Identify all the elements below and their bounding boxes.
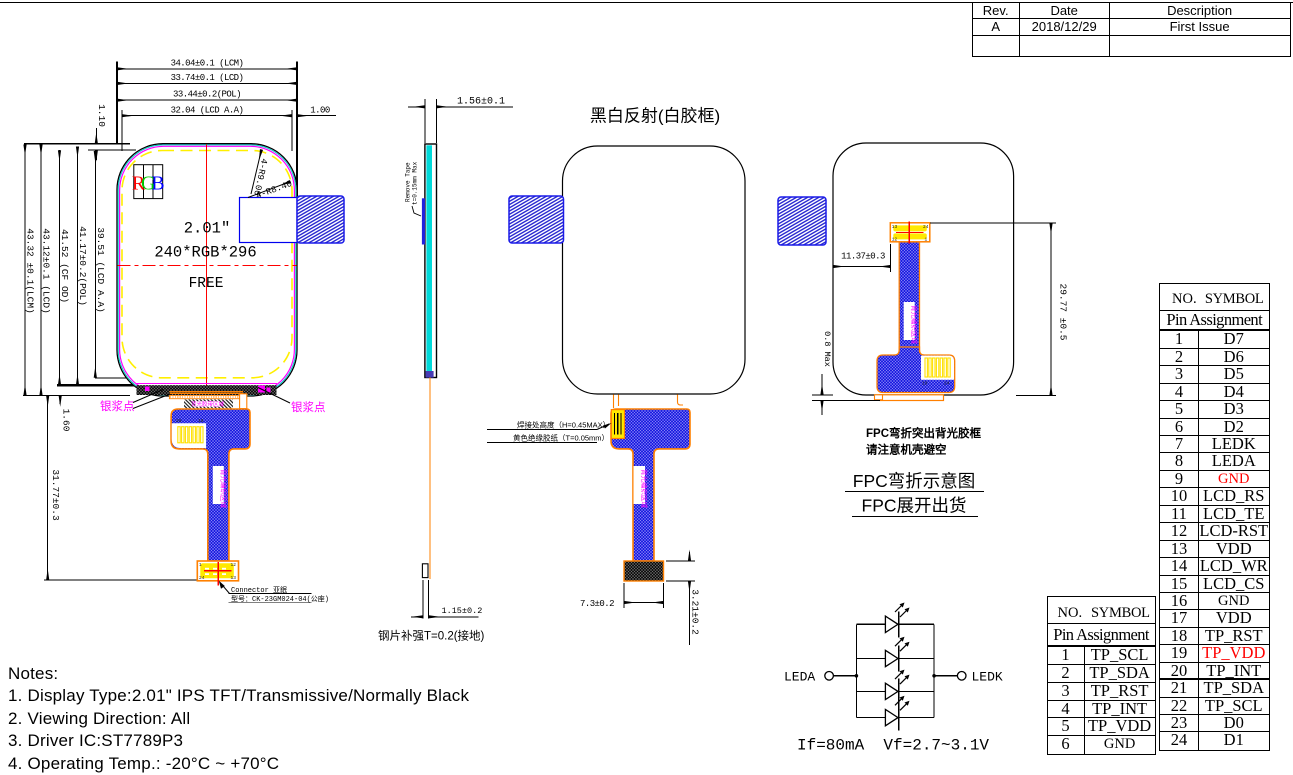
dimension 0.8 Max extension lines <box>812 394 833 396</box>
middle view FPC stem label <box>634 466 646 504</box>
dimension 43.32 LCM vertical line <box>24 145 26 396</box>
svg-text:LEDK: LEDK <box>972 669 1003 684</box>
svg-text:24: 24 <box>199 575 205 581</box>
svg-text:13: 13 <box>892 224 898 230</box>
dimension 1.10 lower line <box>95 150 97 160</box>
dimension 1.15 extension lines <box>422 580 424 618</box>
bend view FPC foot <box>880 395 944 401</box>
dimension 33.44±0.2 (POL) line <box>117 99 297 101</box>
middle view bottom connector hatched <box>624 561 664 581</box>
svg-text:39.51 (LCD A.A): 39.51 (LCD A.A) <box>95 227 106 313</box>
radius callout 4-R8.40 arrow <box>248 182 291 198</box>
dimension 1.60 line <box>59 395 61 404</box>
side view dimension 1.56 arrows <box>408 106 425 108</box>
svg-text:12: 12 <box>892 237 898 243</box>
silver paste leader left <box>133 390 163 403</box>
bend view FPC wide bottom <box>877 347 955 393</box>
left extension line at CF top <box>88 149 136 151</box>
svg-text:1: 1 <box>925 237 928 243</box>
svg-text:13: 13 <box>231 575 237 581</box>
side view dimension 1.56 extension lines <box>424 99 426 143</box>
middle view outline <box>563 146 746 394</box>
bend view connector <box>890 223 930 242</box>
FPC gold fingers front view <box>178 427 203 443</box>
svg-text:FPC弯折示意图: FPC弯折示意图 <box>853 471 976 491</box>
wire anode rail <box>855 624 857 717</box>
dimension 39.51 A.A vertical line <box>94 151 96 378</box>
node LEDA terminal <box>825 672 834 681</box>
dimension 29.77 extension bottom <box>1016 394 1056 396</box>
pin assignment table 24-pin <box>1159 283 1270 751</box>
dimension 32.04 (LCD A.A) line <box>122 115 292 117</box>
svg-text:1: 1 <box>199 562 202 568</box>
svg-text:33.44±0.2(POL): 33.44±0.2(POL) <box>173 90 241 100</box>
wire LEDA to anode rail <box>833 675 856 677</box>
bend view outline <box>833 143 1014 395</box>
svg-text:t=0.15mm Max: t=0.15mm Max <box>412 161 419 205</box>
tape window blue rectangle <box>240 198 298 243</box>
front view: top dimension extension line right (LCM) <box>296 62 298 197</box>
svg-text:FPC展开出货: FPC展开出货 <box>862 496 967 516</box>
silver paste leader right <box>258 388 290 404</box>
radius callout 4-R9.00 arrow <box>251 150 262 195</box>
svg-text:Remove Tape: Remove Tape <box>405 162 412 202</box>
svg-text:7.3±0.2: 7.3±0.2 <box>580 599 614 609</box>
dimension 29.77 line <box>1050 223 1052 395</box>
svg-text:41.52 (CF OD): 41.52 (CF OD) <box>59 229 70 303</box>
left extension line at POL bottom <box>57 384 137 386</box>
side view glass bar <box>425 144 437 378</box>
dimension 7.3 extension lines <box>623 583 625 608</box>
svg-text:1.60: 1.60 <box>61 409 72 432</box>
side view remove tape strip <box>422 198 425 244</box>
LED D3 <box>856 670 934 705</box>
dimension 1.10 upper line <box>95 128 97 144</box>
left extension line at module top <box>24 143 130 145</box>
node LEDK terminal <box>957 672 966 681</box>
front view: top dimension extension line left (LCM) <box>116 62 118 144</box>
svg-text:1.56±0.1: 1.56±0.1 <box>457 97 505 108</box>
FPC zigzag band <box>169 395 243 398</box>
FPC bonding orange lines <box>169 391 243 393</box>
middle view FPC body <box>611 409 690 561</box>
wire cathode rail to LEDK <box>934 675 957 677</box>
remove tape leader <box>412 206 421 216</box>
bend view finger window <box>921 356 954 380</box>
front view: extension line left (LCD A.A) <box>121 110 123 151</box>
bend view foot tab <box>875 395 883 400</box>
svg-text:银浆点: 银浆点 <box>100 399 135 413</box>
left extension line at A.A bottom <box>95 377 128 379</box>
svg-text:背光编织区域: 背光编织区域 <box>220 469 229 509</box>
LED D2 <box>856 637 934 672</box>
svg-text:黑白反射(白胶框): 黑白反射(白胶框) <box>590 107 720 126</box>
bend view connector crosshair <box>896 231 924 233</box>
svg-text:背光编织区域: 背光编织区域 <box>910 305 919 345</box>
bend view FPC stem <box>899 242 919 355</box>
dimension 29.77 extension top <box>930 222 1056 224</box>
svg-text:请注意机壳避空: 请注意机壳避空 <box>866 443 947 457</box>
svg-text:24: 24 <box>944 381 950 387</box>
dimension 43.12 LCD vertical line <box>40 145 42 396</box>
svg-text:0.8 Max: 0.8 Max <box>822 331 832 367</box>
front view POL bottom magenta line <box>137 383 278 385</box>
svg-text:32.04 (LCD A.A): 32.04 (LCD A.A) <box>171 105 244 115</box>
LED D4 <box>856 696 934 731</box>
svg-text:43.32 ±0.1(LCM): 43.32 ±0.1(LCM) <box>25 228 36 314</box>
front view vertical center line red <box>206 144 208 395</box>
front view horizontal center line red dash-dot <box>118 264 297 266</box>
dimension 31.77 vertical line <box>47 395 49 580</box>
sheet top border line <box>0 2 1293 4</box>
svg-text:19: 19 <box>922 381 928 387</box>
svg-text:29.77 ±0.5: 29.77 ±0.5 <box>1058 283 1069 340</box>
connector leader arrow <box>220 583 230 594</box>
svg-text:33.74±0.1 (LCD): 33.74±0.1 (LCD) <box>171 73 244 83</box>
side view stiffener <box>422 564 428 578</box>
dimension 34.04±0.1 (LCM) line <box>117 68 297 70</box>
dimension 3.21 arrows <box>689 552 691 561</box>
connector red crosshair front view <box>204 570 232 572</box>
silver paste dot right small <box>267 388 271 393</box>
silver paste dot left <box>145 387 150 392</box>
backlight tape hatch block <box>184 399 233 408</box>
dimension 1.00 line <box>297 115 336 117</box>
FPC body front view <box>171 409 250 561</box>
svg-text:240*RGB*296: 240*RGB*296 <box>154 244 256 262</box>
svg-text:1.15±0.2: 1.15±0.2 <box>442 606 483 616</box>
svg-text:焊接处高度（H=0.45MAX）: 焊接处高度（H=0.45MAX） <box>517 420 610 430</box>
front view active area yellow dashed outline <box>122 151 292 378</box>
svg-text:银浆点: 银浆点 <box>291 400 326 414</box>
svg-text:25: 25 <box>176 418 182 424</box>
svg-text:If=80mA Vf=2.7~3.1V: If=80mA Vf=2.7~3.1V <box>797 737 989 755</box>
bend view tape hatched rectangle <box>778 197 826 245</box>
dimension 0.8 Max arrows <box>821 374 823 395</box>
svg-text:LEDA: LEDA <box>784 669 815 684</box>
svg-text:3.21±0.2: 3.21±0.2 <box>690 589 701 635</box>
svg-text:B: B <box>151 173 164 195</box>
FPC stem label front view <box>213 466 224 504</box>
pin assignment table 6-pin <box>1047 596 1156 755</box>
svg-text:FREE: FREE <box>189 276 224 292</box>
svg-text:12: 12 <box>231 562 237 568</box>
dimension 41.17 POL vertical line <box>77 147 79 386</box>
svg-text:41.17±0.2(POL): 41.17±0.2(POL) <box>77 226 88 306</box>
wire cathode rail <box>933 624 935 717</box>
LED D1 <box>856 603 934 638</box>
middle view solder detail yellow box <box>611 410 624 439</box>
svg-text:1.00: 1.00 <box>310 105 330 115</box>
svg-text:背光胶带区域: 背光胶带区域 <box>191 400 225 408</box>
side view cyan polarizer layer <box>426 145 432 376</box>
dimension 41.52 CF vertical line <box>59 150 61 385</box>
revision table <box>972 3 1291 58</box>
dimension 11.37 extension line <box>889 244 891 272</box>
front view IC area hatch band <box>137 385 277 395</box>
bend view gold fingers <box>925 358 950 377</box>
svg-text:43.12±0.1 (LCD): 43.12±0.1 (LCD) <box>41 228 52 314</box>
front view: extension line right (LCD A.A) <box>291 110 293 151</box>
extension line at connector bottom <box>44 579 198 581</box>
notes block <box>8 663 469 775</box>
dimension 3.21 extension lines <box>666 560 695 562</box>
dimension 7.3 line <box>624 602 664 604</box>
svg-text:24: 24 <box>923 224 929 230</box>
orange U detail right of hatch block <box>240 394 247 409</box>
RGB pixel box <box>132 165 165 199</box>
dimension 33.74±0.1 (LCD) line <box>117 82 297 84</box>
backlight tape label pill <box>195 401 220 407</box>
connector front view <box>197 561 238 581</box>
svg-text:11.37±0.3: 11.37±0.3 <box>841 252 885 262</box>
left extension line at module bottom <box>23 394 130 396</box>
FPC finger window front view <box>172 423 206 448</box>
front view POL magenta outline <box>120 146 295 393</box>
silver paste dot right <box>258 386 265 393</box>
svg-text:黄色绝缘胶纸（T=0.05mm）: 黄色绝缘胶纸（T=0.05mm） <box>513 433 609 443</box>
front view tape hatched rectangle <box>297 196 344 243</box>
side view FPC orange line <box>429 378 431 580</box>
svg-text:背光编织区域: 背光编织区域 <box>640 469 649 509</box>
svg-text:FPC弯折突出背光胶框: FPC弯折突出背光胶框 <box>866 426 981 440</box>
label arrow to solder detail <box>597 424 609 430</box>
svg-text:2.01″: 2.01″ <box>184 220 231 238</box>
svg-text:31.77±0.3: 31.77±0.3 <box>50 469 61 521</box>
junction cathode <box>932 674 936 678</box>
svg-text:1.10: 1.10 <box>96 104 107 127</box>
junction anode <box>855 674 859 678</box>
svg-text:18: 18 <box>198 418 204 424</box>
side view bottom cap <box>426 371 434 378</box>
middle view FPC hook lines <box>613 395 615 409</box>
front view cyan layer outline <box>118 145 296 395</box>
front view LCM outline <box>117 144 297 396</box>
dimension 1.15 arrows <box>411 616 423 618</box>
dimension 11.37 line <box>833 266 890 268</box>
svg-text:34.04±0.1 (LCM): 34.04±0.1 (LCM) <box>171 58 244 68</box>
bend view stem label <box>904 302 915 340</box>
middle view tape hatched rectangle <box>509 196 564 243</box>
svg-text:钢片补强T=0.2(接地): 钢片补强T=0.2(接地) <box>378 630 485 643</box>
